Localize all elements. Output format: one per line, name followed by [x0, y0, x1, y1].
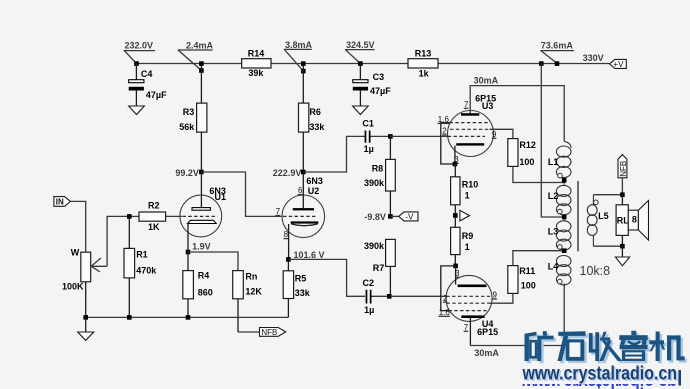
capacitor C3	[353, 64, 391, 107]
svg-text:1.9V: 1.9V	[192, 242, 211, 252]
node: C2/R7/U4-grid junction	[387, 294, 392, 299]
node: 2.4mA probe square	[199, 68, 204, 73]
wire: U2 cathode to C2	[288, 259, 365, 296]
label 99.2V	[175, 168, 199, 178]
node: -V junction	[388, 214, 393, 219]
svg-text:2.4mA: 2.4mA	[186, 40, 214, 50]
node: 3.8mA probe square	[301, 69, 306, 74]
svg-text:330V: 330V	[583, 53, 604, 63]
node: R10/R9 junction	[453, 213, 458, 218]
ground under speaker	[615, 246, 629, 266]
current probe 3.8mA	[284, 40, 313, 71]
svg-text:390k: 390k	[364, 241, 385, 251]
tag: bias test point triangle	[460, 210, 470, 221]
resistor R8	[364, 136, 395, 216]
svg-text:1µ: 1µ	[364, 305, 374, 315]
label 101.6 V	[294, 250, 325, 260]
svg-text:860: 860	[198, 288, 213, 298]
watermark logo 矿石收音机 (main layer)	[525, 331, 685, 361]
node: U3 cathode junction	[453, 162, 458, 167]
speaker icon	[628, 201, 648, 241]
svg-text:7: 7	[276, 207, 281, 216]
voltage probe 324.5V	[345, 40, 375, 64]
svg-text:R9: R9	[462, 231, 474, 241]
node: 73.6mA probe square	[555, 61, 560, 66]
svg-text:390k: 390k	[364, 178, 385, 188]
svg-text:NFB: NFB	[619, 161, 628, 177]
ground under C3	[353, 106, 369, 115]
node: U2 cathode junction	[286, 257, 291, 262]
tag +V	[610, 59, 627, 68]
watermark url reflection fragments	[522, 370, 677, 389]
node: C4/rail junction	[134, 61, 139, 66]
svg-text:R12: R12	[519, 140, 536, 150]
watermark url www.crystalradio.cn	[522, 363, 679, 386]
svg-text:IN: IN	[56, 197, 64, 206]
svg-text:-9.8V: -9.8V	[364, 212, 386, 222]
node: secondary bottom junction	[620, 244, 625, 249]
svg-text:9: 9	[492, 130, 497, 139]
inductor L2 (primary winding)	[548, 185, 571, 220]
resistor R6	[299, 66, 326, 172]
svg-text:100: 100	[519, 157, 534, 167]
svg-text:C2: C2	[363, 278, 375, 288]
svg-text:R4: R4	[198, 271, 210, 281]
voltage probe 232.0V	[124, 40, 156, 63]
char 石	[558, 331, 585, 336]
node: center-tap feed junction	[539, 61, 544, 66]
capacitor C2	[363, 278, 391, 315]
wire: R11 to L3/L4 tap	[513, 251, 564, 266]
wire: U3 screen to R12	[490, 129, 513, 138]
inductor L4 (primary winding)	[548, 256, 571, 285]
ground under input rail	[78, 317, 94, 340]
node: R1/R2/wiper junction	[127, 214, 132, 219]
wire: U4 screen to R11	[491, 293, 513, 303]
wire: -V stub	[390, 215, 398, 217]
watermark logo 矿石收音机 (drawn strokes, shadow layer)	[527, 333, 687, 363]
svg-text:L1: L1	[548, 157, 559, 167]
svg-text:L2: L2	[548, 191, 559, 201]
resistor RL (load)	[616, 195, 629, 247]
svg-text:33k: 33k	[309, 122, 325, 132]
svg-text:R6: R6	[309, 107, 321, 117]
svg-text:R1: R1	[136, 249, 148, 259]
svg-text:C1: C1	[362, 119, 374, 129]
wire: U3 anode to L1	[470, 86, 564, 142]
svg-text:101.6 V: 101.6 V	[294, 250, 325, 260]
char 音	[631, 331, 636, 335]
svg-text:1.6: 1.6	[438, 115, 450, 124]
wire: B+ top rail segment 1	[136, 63, 241, 65]
svg-text:8: 8	[284, 230, 289, 239]
svg-text:30mA: 30mA	[474, 75, 499, 85]
char 收	[589, 333, 593, 350]
svg-text:99.2V: 99.2V	[175, 168, 199, 178]
svg-text:L3: L3	[548, 226, 559, 236]
resistor R10	[451, 164, 479, 227]
svg-text:2: 2	[442, 127, 447, 136]
tag NFB (bottom)	[260, 328, 286, 337]
transformer core	[577, 181, 579, 251]
svg-text:W: W	[71, 247, 80, 257]
node: C1/R8/U3-grid junction	[388, 134, 393, 139]
svg-text:1: 1	[465, 191, 470, 201]
resistor R4	[183, 252, 213, 317]
pentode U3	[438, 94, 497, 165]
wire: U2 anode to C1	[303, 136, 365, 172]
svg-text:1k: 1k	[419, 69, 430, 79]
inductor L3 (primary winding)	[548, 221, 571, 250]
resistor R9	[451, 227, 474, 266]
resistor R2	[129, 201, 182, 232]
wire: secondary bottom	[593, 245, 622, 247]
tag NFB (vertical at output)	[618, 155, 628, 178]
svg-text:C4: C4	[141, 69, 153, 79]
svg-text:Rn: Rn	[245, 271, 257, 281]
svg-text:470k: 470k	[136, 265, 157, 275]
svg-text:33k: 33k	[295, 288, 311, 298]
node: R6/rail junction	[301, 61, 306, 66]
node: C3/rail junction	[358, 61, 363, 66]
svg-text:NFB: NFB	[261, 328, 277, 337]
svg-text:+V: +V	[613, 60, 624, 69]
svg-text:3.8mA: 3.8mA	[285, 40, 313, 50]
wire: +V rail to transformer center tap	[541, 64, 564, 218]
node: R1/ground rail junction	[127, 315, 132, 320]
node: R4/ground rail junction	[186, 315, 191, 320]
triode U1	[180, 172, 226, 252]
resistor R3	[179, 66, 207, 172]
svg-text:100: 100	[521, 280, 536, 290]
svg-text:232.0V: 232.0V	[125, 40, 154, 50]
resistor R7	[364, 239, 395, 296]
label 222.9V	[273, 168, 302, 178]
svg-text:3: 3	[455, 269, 460, 278]
potentiometer W 100K	[62, 216, 129, 317]
svg-text:RL: RL	[617, 215, 629, 225]
resistor R1	[124, 216, 157, 317]
svg-text:222.9V: 222.9V	[273, 168, 302, 178]
svg-text:7: 7	[464, 100, 469, 109]
label 330V	[583, 53, 604, 63]
label 30mA (U3)	[474, 75, 499, 85]
node: L1/L2 tap	[562, 178, 567, 183]
resistor R5	[283, 259, 311, 317]
wire: U1 anode to U2 grid	[201, 172, 282, 216]
wire: bottom ground rail	[86, 316, 289, 318]
svg-text:39k: 39k	[248, 68, 264, 78]
node: pot/ground rail junction	[83, 315, 88, 320]
triode U2	[275, 172, 324, 259]
resistor Rn	[233, 271, 263, 332]
svg-text:R8: R8	[372, 163, 384, 173]
svg-text:R13: R13	[415, 49, 432, 59]
svg-text:R10: R10	[462, 179, 479, 189]
label 30mA (U4)	[474, 348, 499, 358]
svg-text:2: 2	[443, 294, 448, 303]
wire: C2 node to U4 grid	[390, 295, 446, 297]
capacitor C1	[362, 119, 390, 154]
svg-text:1: 1	[465, 242, 470, 252]
node: R3/rail junction	[199, 61, 204, 66]
ground under C4	[129, 106, 145, 115]
svg-text:1µ: 1µ	[364, 144, 374, 154]
label 10k:8	[580, 264, 611, 278]
svg-text:1.6: 1.6	[439, 308, 451, 317]
svg-text:R5: R5	[295, 274, 307, 284]
svg-text:R3: R3	[183, 107, 195, 117]
svg-text:R7: R7	[373, 263, 385, 273]
svg-text:C3: C3	[373, 72, 385, 82]
svg-text:7: 7	[464, 323, 469, 332]
svg-text:www.crystalradio.cn: www.crystalradio.cn	[522, 363, 677, 384]
svg-text:R2: R2	[148, 201, 160, 211]
resistor R12	[508, 139, 536, 168]
svg-text:L5: L5	[598, 211, 609, 221]
svg-text:324.5V: 324.5V	[346, 40, 375, 50]
svg-text:73.6mA: 73.6mA	[541, 41, 574, 51]
svg-text:8: 8	[632, 215, 637, 225]
node: U1 anode junction	[199, 170, 204, 175]
node: U1 cathode junction	[186, 250, 191, 255]
svg-text:R14: R14	[248, 49, 265, 59]
svg-text:30mA: 30mA	[474, 348, 499, 358]
svg-text:U1: U1	[215, 192, 227, 202]
svg-text:56k: 56k	[179, 122, 195, 132]
svg-text:R11: R11	[519, 266, 535, 276]
resistor R14	[242, 49, 271, 78]
inductor L1 (primary winding)	[548, 141, 571, 185]
node: L2/L3 center tap	[562, 215, 567, 220]
pentode U4	[439, 266, 499, 346]
node: L3/L4 tap	[562, 248, 567, 253]
svg-text:47µF: 47µF	[146, 90, 167, 100]
tag IN	[54, 197, 71, 207]
inductor L5 (secondary)	[587, 195, 608, 247]
svg-text:10k:8: 10k:8	[580, 264, 611, 278]
wire: IN to potentiometer	[70, 201, 85, 252]
svg-text:6N3: 6N3	[306, 176, 323, 186]
stray mark right of url	[678, 370, 681, 386]
char 机	[649, 340, 664, 344]
tag -V	[399, 212, 418, 222]
current probe 73.6mA	[540, 41, 574, 64]
svg-text:1K: 1K	[148, 222, 160, 232]
wire: U4 anode to L4	[470, 284, 564, 346]
svg-text:-V: -V	[405, 212, 414, 221]
wire: Rn to NFB tag	[238, 331, 260, 333]
wire: B+ top rail segment 2	[271, 63, 408, 65]
wire: R12 to L1/L2 tap	[513, 166, 564, 182]
svg-text:L4: L4	[548, 262, 559, 272]
resistor R11	[508, 266, 536, 294]
wire: B+ top rail segment 3	[438, 63, 610, 65]
svg-text:6: 6	[298, 186, 303, 195]
current probe 2.4mA	[178, 40, 214, 70]
label -9.8V	[364, 212, 386, 222]
svg-text:100K: 100K	[62, 281, 84, 291]
wire: NFB tag to secondary top	[593, 178, 622, 195]
svg-text:47µF: 47µF	[370, 86, 391, 96]
svg-text:9: 9	[493, 291, 498, 300]
svg-text:U2: U2	[308, 186, 320, 196]
node: U4 cathode junction	[453, 264, 458, 269]
wire: U1 cathode to Rn	[188, 252, 238, 271]
capacitor C4	[129, 64, 167, 107]
char 矿	[525, 332, 537, 337]
svg-text:12K: 12K	[245, 287, 262, 297]
resistor R13	[408, 49, 438, 79]
wire: C1 node to U3 grid	[390, 135, 448, 137]
label 1.9V	[192, 242, 211, 252]
node: U2 anode junction	[301, 170, 306, 175]
node: secondary top junction	[620, 192, 625, 197]
svg-text:6P15: 6P15	[477, 327, 498, 337]
svg-text:U3: U3	[482, 101, 494, 111]
